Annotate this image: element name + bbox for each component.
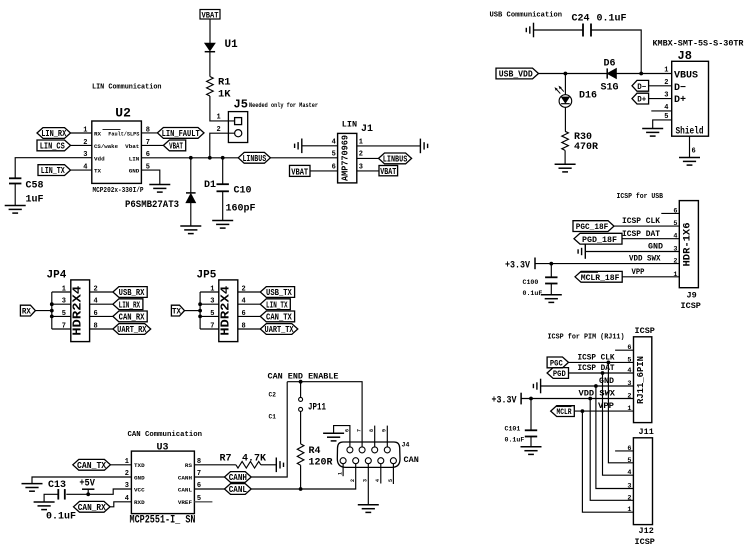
svg-text:Fault/SLPS: Fault/SLPS — [108, 130, 139, 137]
pin name Fault/SLPS with overline — [103, 130, 140, 138]
svg-text:LIN_TX: LIN_TX — [41, 166, 65, 176]
svg-text:LIN_RX: LIN_RX — [41, 129, 66, 139]
svg-text:LINBUS: LINBUS — [242, 154, 266, 164]
svg-text:1: 1 — [673, 271, 677, 279]
capacitor C101 — [525, 430, 537, 436]
wire R1 to J5 pin 1 — [210, 96, 235, 121]
wire U3 pin 8 to R7 — [194, 464, 236, 466]
svg-text:D+: D+ — [637, 96, 646, 105]
svg-text:3: 3 — [627, 380, 631, 388]
connector J1 body — [338, 133, 357, 183]
svg-text:C1: C1 — [269, 413, 277, 420]
power rail +3.3V J9 — [534, 258, 536, 270]
diode D6 — [607, 68, 616, 78]
svg-text:1: 1 — [627, 506, 631, 514]
net tag PGC — [547, 357, 568, 369]
wire MCLR_18F to J9 pin 1 — [622, 276, 679, 278]
junction at C100 — [549, 262, 553, 266]
wire pin 7 to VBAT — [141, 144, 163, 146]
wire to JP11 top — [300, 382, 302, 398]
svg-text:J4: J4 — [402, 441, 410, 448]
svg-text:R4: R4 — [309, 446, 321, 457]
pin J4-2 circle — [353, 458, 359, 464]
connector J5 — [228, 112, 247, 143]
svg-text:4: 4 — [627, 469, 631, 477]
net tag LIN_RX out — [113, 299, 143, 311]
svg-text:C2: C2 — [269, 391, 277, 398]
svg-text:D−: D− — [674, 83, 686, 94]
svg-text:1uF: 1uF — [26, 195, 44, 206]
svg-text:7: 7 — [210, 323, 214, 331]
net tag LINBUS — [238, 152, 270, 164]
svg-text:JP5: JP5 — [197, 270, 217, 282]
svg-text:LIN_RX: LIN_RX — [119, 300, 141, 310]
svg-text:LIN_CS: LIN_CS — [40, 142, 65, 152]
wire JP4 pin 1 — [52, 291, 71, 293]
wire PGD_18F to J9 pin 4 — [622, 238, 679, 240]
ground below C101 — [521, 447, 542, 455]
power flag VBAT top — [200, 10, 220, 21]
wire JP4 pin 5 — [52, 315, 71, 317]
wire JP4 pin 6 to CAN_RX — [90, 315, 113, 317]
net tag PGD — [547, 368, 568, 380]
wire RX to JP4 — [35, 310, 51, 312]
wire JP4 pin 8 to UART_RX — [90, 328, 113, 330]
svg-text:4: 4 — [673, 233, 677, 241]
svg-text:1: 1 — [217, 114, 221, 122]
net tag CAN_TX — [73, 459, 111, 471]
svg-text:6: 6 — [627, 344, 631, 352]
svg-text:3: 3 — [627, 483, 631, 491]
pin J4-6 circle — [347, 447, 353, 453]
connector J9 body — [679, 201, 698, 288]
junction JP4 pin 3 — [50, 302, 54, 306]
pin J4-1 circle — [340, 458, 346, 464]
wire JP4 pin 7 — [52, 328, 71, 330]
wire CANH to termination — [251, 382, 287, 477]
capacitor C10 — [217, 184, 229, 191]
svg-text:PGC_18F: PGC_18F — [576, 222, 609, 232]
svg-text:0.1uF: 0.1uF — [523, 290, 543, 297]
svg-text:GND: GND — [599, 376, 614, 386]
svg-text:GND: GND — [648, 242, 663, 252]
net tag CANL — [225, 484, 252, 496]
net tag VBAT at J1 pin 6 — [290, 165, 311, 177]
svg-text:D+: D+ — [674, 95, 686, 106]
wire R7 to ground — [261, 464, 277, 466]
wire JP5 pin 2 to USB_TX — [238, 291, 260, 293]
wire pin 8 to LIN_FAULT — [141, 132, 157, 134]
svg-text:D−: D− — [637, 83, 646, 92]
junction JP4 pin 5 — [50, 315, 54, 319]
svg-text:CANH: CANH — [178, 474, 193, 481]
svg-text:LINBUS: LINBUS — [383, 155, 408, 165]
svg-text:1: 1 — [62, 286, 66, 294]
overline on MCLR_18F — [580, 271, 598, 273]
wire LIN_TX to pin 4 — [71, 169, 92, 171]
svg-text:2: 2 — [627, 393, 631, 401]
wire JP5 pin 5 — [200, 315, 219, 317]
svg-text:CAN_TX: CAN_TX — [266, 313, 292, 323]
wire +3.3V to J9 pin 2 — [535, 263, 679, 265]
junction VPP drop — [581, 409, 585, 413]
wire C100 branch — [550, 264, 552, 278]
wire J4 pin 9 stub — [386, 426, 388, 447]
net tag D+ — [632, 93, 649, 105]
wire JP4 pin 2 to USB_RX — [90, 291, 113, 293]
wire JP5 pin 7 — [200, 328, 219, 330]
wire JP11 to R4 — [300, 411, 302, 444]
wire JP5 pin 8 to UART_TX — [238, 328, 260, 330]
junction at D16 branch — [564, 72, 568, 76]
svg-text:1: 1 — [627, 405, 631, 413]
svg-text:CAN_RX: CAN_RX — [119, 313, 145, 323]
wire MCLR to J11 pin 1 — [574, 410, 633, 412]
svg-text:CAN_TX: CAN_TX — [77, 461, 107, 471]
wire J4 pin 8 stub — [374, 426, 376, 447]
wire J4 pin 4 stub — [380, 464, 382, 484]
svg-text:AMP770969: AMP770969 — [339, 135, 350, 181]
wire R30 to ground — [564, 150, 566, 164]
net tag CAN_TX out — [260, 311, 294, 323]
svg-text:TX: TX — [172, 307, 182, 317]
power rail +3.3V J11 — [520, 393, 522, 405]
svg-text:GND: GND — [129, 168, 140, 175]
svg-text:LIN_TX: LIN_TX — [266, 300, 288, 310]
ground below C100 — [541, 295, 562, 303]
wire U3 pin 6 to CANL tag — [194, 488, 224, 490]
wire JP5 pin 1 — [200, 291, 219, 293]
sideways ground after R7 — [276, 458, 283, 473]
connector J11 body — [634, 337, 652, 423]
svg-text:JP11: JP11 — [308, 402, 326, 413]
svg-text:HDR2X4: HDR2X4 — [219, 286, 233, 336]
wire VDD to J12 pin 2 — [590, 399, 633, 501]
net tag PGD_18F — [574, 233, 622, 245]
junction JP11 top — [299, 380, 303, 384]
wire J1 pin 2 to LINBUS — [357, 157, 379, 159]
wire D- to J8 pin 2 — [649, 85, 672, 87]
svg-text:2: 2 — [627, 494, 631, 502]
svg-text:VBAT: VBAT — [380, 167, 396, 177]
pin J4-9 circle — [384, 447, 390, 453]
svg-text:5: 5 — [627, 457, 631, 465]
capacitor C100 — [545, 277, 557, 283]
LED D16 — [555, 86, 572, 108]
pin J4-7 circle — [359, 447, 365, 453]
connector J12 body — [633, 438, 652, 525]
svg-text:6: 6 — [627, 445, 631, 453]
wire C58 to ground — [14, 184, 16, 206]
resistor R1 — [207, 77, 214, 97]
wire J8 pin 5 to ground — [653, 120, 672, 129]
svg-text:J11: J11 — [639, 427, 654, 437]
svg-text:J9: J9 — [687, 291, 697, 301]
svg-text:RX: RX — [22, 307, 32, 317]
sideways ground at J1 pin 4 — [295, 139, 302, 154]
svg-text:160pF: 160pF — [226, 204, 256, 215]
net tag TX — [171, 305, 184, 317]
ground below C58 — [5, 206, 26, 214]
junction JP5 pin 5 — [198, 315, 202, 319]
wire JP5 left bus — [199, 292, 201, 329]
wire J1 pin 4 to ground — [302, 145, 338, 147]
ground below D1 — [180, 226, 201, 234]
svg-text:P6SMB27AT3: P6SMB27AT3 — [125, 200, 179, 211]
svg-text:VDD SWX: VDD SWX — [579, 389, 617, 399]
wire bus to D1 — [190, 158, 192, 193]
pin J4-5 circle — [390, 458, 396, 464]
wire PGD to J11 pin 4 — [569, 372, 634, 374]
svg-text:VBAT: VBAT — [169, 142, 183, 152]
svg-text:5: 5 — [210, 310, 214, 318]
wire J9 pin 6 stub — [661, 212, 679, 214]
svg-text:MCLR: MCLR — [556, 407, 572, 417]
net tag VBAT at pin 7 — [163, 140, 185, 152]
wire C13 right to VCC pin 3 — [66, 489, 131, 494]
net tag D- — [632, 80, 649, 92]
wire CAN END ENABLE rail — [287, 382, 362, 447]
svg-text:MCLR_18F: MCLR_18F — [581, 273, 620, 283]
svg-text:D16: D16 — [579, 91, 597, 102]
wire USB_VDD to D6 — [539, 73, 608, 75]
svg-text:2: 2 — [673, 258, 677, 266]
wire JP5 pin 4 to LIN_TX — [238, 303, 260, 305]
svg-text:1: 1 — [359, 139, 363, 147]
svg-text:1K: 1K — [218, 89, 231, 101]
svg-text:470R: 470R — [574, 142, 598, 153]
wire node to D16 — [564, 74, 566, 96]
junction GND drop — [594, 384, 598, 388]
wire DAT to J12 pin 4 — [603, 373, 634, 475]
svg-text:VREF: VREF — [178, 499, 193, 506]
wire C13 left to ground — [44, 494, 58, 502]
junction CLK drop — [607, 361, 611, 365]
wire ground to C24 — [534, 29, 584, 31]
wire J5 pin 2 to LIN bus — [210, 133, 235, 158]
svg-text:C10: C10 — [234, 186, 252, 197]
wire C10 to ground — [222, 191, 224, 220]
svg-text:4: 4 — [375, 479, 381, 482]
svg-text:HDR-1X6: HDR-1X6 — [683, 223, 694, 267]
svg-text:ICSP: ICSP — [681, 301, 701, 311]
svg-text:CAN: CAN — [404, 455, 419, 465]
svg-text:VCC: VCC — [134, 486, 145, 493]
ground below C13 — [34, 502, 55, 510]
net tag RX — [20, 305, 35, 317]
wire CAN_TX to U3 pin 1 — [110, 464, 131, 466]
overline on MCLR — [557, 406, 572, 408]
wire J1 pin 1 to ground — [357, 145, 421, 147]
svg-text:3: 3 — [210, 298, 214, 306]
wire pin 5 GND to ground — [141, 170, 159, 184]
junction at C24 drop — [639, 72, 643, 76]
svg-text:USB_VDD: USB_VDD — [499, 70, 534, 80]
net tag USB_VDD — [496, 68, 539, 80]
svg-text:ICSP CLK: ICSP CLK — [622, 216, 661, 226]
sideways ground at J11 pin 3 — [533, 379, 540, 394]
wire JP4 left bus — [51, 292, 53, 329]
wire LIN_CS to pin 2 — [71, 144, 92, 146]
svg-text:6: 6 — [344, 429, 350, 432]
svg-text:VPP: VPP — [598, 401, 614, 411]
svg-text:9: 9 — [382, 429, 388, 432]
svg-text:ICSP for USB: ICSP for USB — [617, 193, 664, 201]
ic U3 body — [131, 451, 194, 513]
diode D1 transil — [186, 193, 196, 203]
svg-text:KMBX-SMT-5S-S-30TR: KMBX-SMT-5S-S-30TR — [653, 40, 744, 49]
svg-text:5: 5 — [62, 310, 66, 318]
svg-text:+3.3V: +3.3V — [505, 260, 530, 271]
svg-text:6: 6 — [692, 148, 696, 156]
junction JP5 pin 3 — [198, 302, 202, 306]
net tag UART_RX — [113, 324, 151, 336]
wire CAN_RX to U3 pin 4 — [110, 502, 131, 507]
wire U3 pin 2 GND — [32, 477, 131, 484]
svg-text:1: 1 — [664, 67, 668, 75]
resistor R4 — [297, 444, 304, 465]
svg-text:120R: 120R — [309, 458, 333, 469]
svg-text:C58: C58 — [26, 181, 44, 192]
wire J4 pin 6 to ground — [334, 426, 350, 447]
svg-text:D1: D1 — [204, 180, 216, 191]
ground at U2 pin 5 — [149, 185, 170, 193]
wire J8 pin 6 shield to ground — [689, 136, 691, 157]
wire C24 to VBUS node — [591, 30, 641, 74]
wire JP5 pin 3 — [200, 303, 219, 305]
svg-text:+3.3V: +3.3V — [492, 395, 517, 406]
capacitor C58 — [9, 178, 21, 183]
svg-text:2: 2 — [350, 479, 356, 482]
svg-text:7: 7 — [357, 429, 363, 432]
net tag MCLR_18F — [575, 271, 622, 283]
connector JP4 body — [71, 280, 90, 342]
svg-text:3: 3 — [62, 298, 66, 306]
net tag LIN_RX — [37, 128, 71, 140]
svg-text:R7: R7 — [220, 453, 232, 464]
net tag USB_TX — [260, 287, 294, 299]
capacitor C13 — [58, 489, 65, 500]
wire PGC_18F to J9 pin 5 — [614, 225, 679, 227]
ground at J4 pin 6 — [323, 433, 344, 441]
ic U2 body — [92, 121, 142, 183]
ground below C10 — [212, 221, 233, 229]
wire D+ to J8 pin 3 — [649, 98, 672, 100]
junction JP5 TX — [198, 309, 202, 313]
net tag LIN_TX out — [260, 299, 290, 311]
wire bus to C10 — [222, 158, 224, 184]
svg-text:5: 5 — [332, 151, 336, 159]
net tag USB_RX — [113, 287, 147, 299]
svg-text:5: 5 — [388, 479, 394, 482]
net tag VBAT right of J1 — [379, 166, 398, 178]
svg-text:Vbat: Vbat — [125, 143, 139, 150]
svg-text:ICSP for PIM (RJ11): ICSP for PIM (RJ11) — [548, 333, 625, 341]
pin J4-8 circle — [372, 447, 378, 453]
wire VBAT to J1 pin 6 — [310, 170, 338, 172]
svg-text:J1: J1 — [361, 124, 373, 135]
svg-text:RS: RS — [185, 462, 193, 469]
wire Vdd pin 3 to C58 — [15, 158, 92, 179]
connector J8 body — [672, 61, 709, 136]
svg-text:LIN: LIN — [342, 120, 357, 130]
svg-text:R1: R1 — [218, 77, 231, 89]
wire D1 to ground — [190, 203, 192, 226]
svg-text:U2: U2 — [115, 106, 131, 121]
svg-text:MCP2551-I_ SN: MCP2551-I_ SN — [130, 515, 196, 527]
wire C100 to ground — [550, 284, 552, 295]
svg-text:+5V: +5V — [79, 479, 95, 490]
wire U1 cathode to R1 — [209, 52, 211, 77]
junction at D1 — [189, 156, 193, 160]
svg-text:PGD_18F: PGD_18F — [582, 235, 617, 245]
wire ground to J9 pin 3 — [585, 251, 679, 253]
junction at J5 branch — [208, 156, 212, 160]
svg-text:6: 6 — [673, 207, 677, 215]
capacitor C24 — [583, 24, 591, 37]
svg-text:CANH: CANH — [229, 473, 247, 483]
svg-text:ICSP DAT: ICSP DAT — [622, 229, 660, 239]
wire J12 pin 6 stub — [615, 450, 633, 452]
ground below J8 shield — [679, 158, 700, 166]
svg-text:VBAT: VBAT — [291, 167, 308, 177]
svg-text:USB Communication: USB Communication — [490, 12, 563, 20]
ground at J8 pin 5 — [642, 129, 663, 137]
wire J4 pin 5 stub — [392, 464, 394, 484]
wire ground to J11 pin 3 — [541, 385, 634, 387]
svg-text:C13: C13 — [48, 480, 66, 491]
svg-text:C100: C100 — [523, 279, 539, 286]
svg-text:2: 2 — [359, 151, 363, 159]
wire CANL to J4 pin 2 — [251, 464, 356, 489]
svg-text:C101: C101 — [505, 426, 521, 433]
svg-text:7: 7 — [62, 323, 66, 331]
wire GND to J12 pin 3 — [596, 386, 634, 489]
wire C101 to ground — [530, 437, 532, 447]
svg-text:LIN_FAULT: LIN_FAULT — [162, 129, 201, 139]
svg-text:J5: J5 — [234, 98, 248, 112]
svg-text:HDR2X4: HDR2X4 — [71, 286, 85, 336]
svg-text:MCP202x-330I/P: MCP202x-330I/P — [93, 187, 144, 195]
svg-text:UART_RX: UART_RX — [117, 325, 147, 335]
svg-text:0.1uF: 0.1uF — [46, 512, 76, 523]
svg-text:D6: D6 — [604, 59, 616, 70]
svg-text:5: 5 — [627, 356, 631, 364]
net tag PGC_18F — [573, 221, 614, 233]
svg-text:4: 4 — [627, 367, 631, 375]
svg-text:C24: C24 — [572, 14, 590, 25]
wire TX to JP5 — [185, 310, 201, 312]
stub U3 pin 5 VREF — [194, 501, 212, 503]
wire +5V stem — [87, 489, 89, 494]
svg-text:VPP: VPP — [632, 267, 645, 277]
sideways ground at J9 pin 3 — [578, 244, 585, 259]
sideways ground left of C24 — [526, 23, 533, 38]
ground below R30 — [555, 164, 576, 172]
junction at C101 — [529, 397, 533, 401]
wire J4 pin 1 stub — [342, 464, 344, 477]
svg-text:CS/wake: CS/wake — [94, 143, 118, 150]
wire +3.3V to J11 pin 2 — [521, 398, 633, 400]
svg-text:JP4: JP4 — [47, 270, 67, 282]
resistor R30 — [562, 131, 569, 150]
svg-text:CANL: CANL — [178, 486, 193, 493]
wire PGC to J11 pin 5 — [569, 361, 634, 363]
svg-text:5: 5 — [673, 220, 677, 228]
svg-text:PGD: PGD — [553, 369, 566, 379]
svg-text:Shield: Shield — [676, 126, 704, 138]
wire JP4 pin 4 to LIN_RX — [90, 303, 113, 305]
